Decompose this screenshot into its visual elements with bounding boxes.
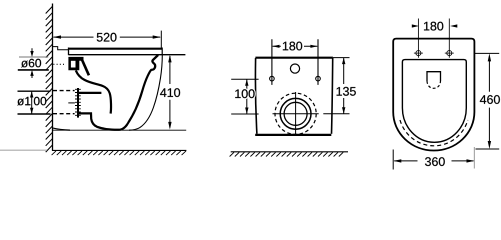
wall bracket / flush inlet (black) bbox=[68, 57, 83, 70]
dimension 410 line bbox=[169, 56, 171, 128]
dimension 520 line bbox=[53, 36, 160, 38]
180 extension lines (plan) bbox=[418, 19, 449, 58]
body top edge bbox=[255, 57, 333, 59]
flush channel bottom bar, step and bowl bottom, back curve bbox=[79, 70, 152, 130]
label 180 (plan) bbox=[424, 22, 443, 31]
fixing hole right (plan) bbox=[447, 51, 452, 56]
seat left end bbox=[68, 48, 70, 56]
dim o100 bottom line bbox=[18, 113, 51, 115]
o60 dotted leader bbox=[53, 63, 64, 65]
360 left extension line bbox=[392, 150, 394, 170]
rim hook section bbox=[151, 55, 158, 70]
360 right extension line (gray) bbox=[473, 147, 475, 169]
body bottom edge bbox=[255, 134, 331, 136]
diagonal strut bbox=[82, 59, 89, 75]
180 extension lines bbox=[272, 39, 318, 85]
body left side bbox=[255, 58, 256, 134]
hidden bowl edge dashed arc bbox=[400, 120, 468, 146]
arrow 520 right bbox=[153, 35, 161, 38]
toilet bottom reference line bbox=[53, 129, 186, 131]
body right side bbox=[332, 58, 333, 134]
135 extension lines bbox=[323, 58, 349, 114]
outlet circles crosshair horizontal bbox=[273, 113, 319, 115]
outer body outline bbox=[393, 39, 474, 151]
label o100 bbox=[17, 97, 30, 106]
floor hatching (left view) bbox=[52, 151, 186, 155]
wall hatching bbox=[46, 7, 53, 153]
outlet pipe inner circle bbox=[284, 102, 307, 125]
100 extension lines bbox=[231, 79, 258, 114]
fixing hole left bbox=[270, 76, 275, 81]
460 bottom extension line bbox=[476, 148, 500, 150]
dim o60 bottom line bbox=[18, 69, 49, 71]
o100 double arrow bbox=[31, 91, 33, 114]
outlet pipe spring symbol bbox=[77, 88, 79, 118]
arrow 180 right bbox=[310, 45, 317, 48]
label o60 bbox=[21, 59, 41, 68]
label 180 (middle) bbox=[283, 42, 302, 51]
outlet outer dashed circle bbox=[275, 93, 316, 134]
arrow 410 down bbox=[168, 122, 171, 130]
floor line (middle view) bbox=[231, 151, 348, 153]
bowl outer front profile (thin) bbox=[129, 55, 162, 130]
arrow 360 right bbox=[467, 159, 475, 162]
seat right end bbox=[161, 48, 163, 55]
flush pipe step line at wall bbox=[53, 47, 69, 50]
fixing hole right bbox=[316, 76, 321, 81]
flush opening dashed bottom arc bbox=[427, 81, 441, 88]
label 360 bbox=[425, 157, 445, 166]
toilet underside curve at wall bbox=[53, 128, 70, 130]
floor hatching (middle view) bbox=[230, 152, 344, 156]
arrow 520 left bbox=[53, 35, 61, 38]
bracket window (white) bbox=[71, 61, 76, 68]
flush inlet circle bbox=[290, 64, 299, 73]
label 410 bbox=[160, 88, 180, 97]
flush channel top bar bbox=[78, 92, 102, 94]
floor line left of wall (gray) bbox=[0, 149, 47, 151]
arrow 360 left bbox=[394, 159, 402, 162]
seat bottom line / 410 top extension bbox=[69, 54, 186, 56]
arrow 180 left bbox=[272, 45, 279, 48]
seat top line bbox=[69, 48, 163, 50]
label 100 (middle) bbox=[235, 89, 254, 98]
spring ticks bbox=[75, 89, 81, 115]
wall line bbox=[52, 4, 54, 151]
460 dimension shafts bbox=[488, 61, 490, 142]
dimension 180 line (middle) bbox=[273, 45, 318, 47]
520 right extension line bbox=[160, 31, 162, 50]
dim o100 top line bbox=[18, 90, 51, 92]
arrow 180 plan left (outside pointing right) bbox=[412, 24, 419, 27]
label 460 bbox=[480, 95, 500, 104]
460 top extension line bbox=[474, 52, 499, 54]
fixing hole left (plan) bbox=[416, 51, 421, 56]
flush opening rect bbox=[427, 72, 441, 81]
o60 arrow up bbox=[31, 75, 33, 78]
outlet pipe outer circle bbox=[280, 98, 311, 129]
label 135 (middle) bbox=[337, 87, 356, 96]
360 dimension line bbox=[394, 160, 473, 162]
100 double arrow bbox=[246, 79, 248, 114]
o60 arrow down bbox=[31, 48, 33, 52]
floor line (left view) bbox=[52, 149, 186, 151]
135 dimension shafts bbox=[343, 58, 345, 114]
inner seat outline bbox=[402, 60, 466, 143]
o100 dashed leaders bbox=[53, 91, 75, 114]
label 520 bbox=[97, 33, 117, 42]
trapway top curve bbox=[76, 70, 111, 113]
outlet circles crosshair vertical bbox=[295, 92, 297, 135]
dim o60 top line (gray) bbox=[19, 56, 48, 58]
arrow 410 up bbox=[168, 55, 171, 63]
o100 center dash bbox=[68, 102, 75, 104]
arrow 180 plan right (outside pointing left) bbox=[450, 24, 457, 27]
